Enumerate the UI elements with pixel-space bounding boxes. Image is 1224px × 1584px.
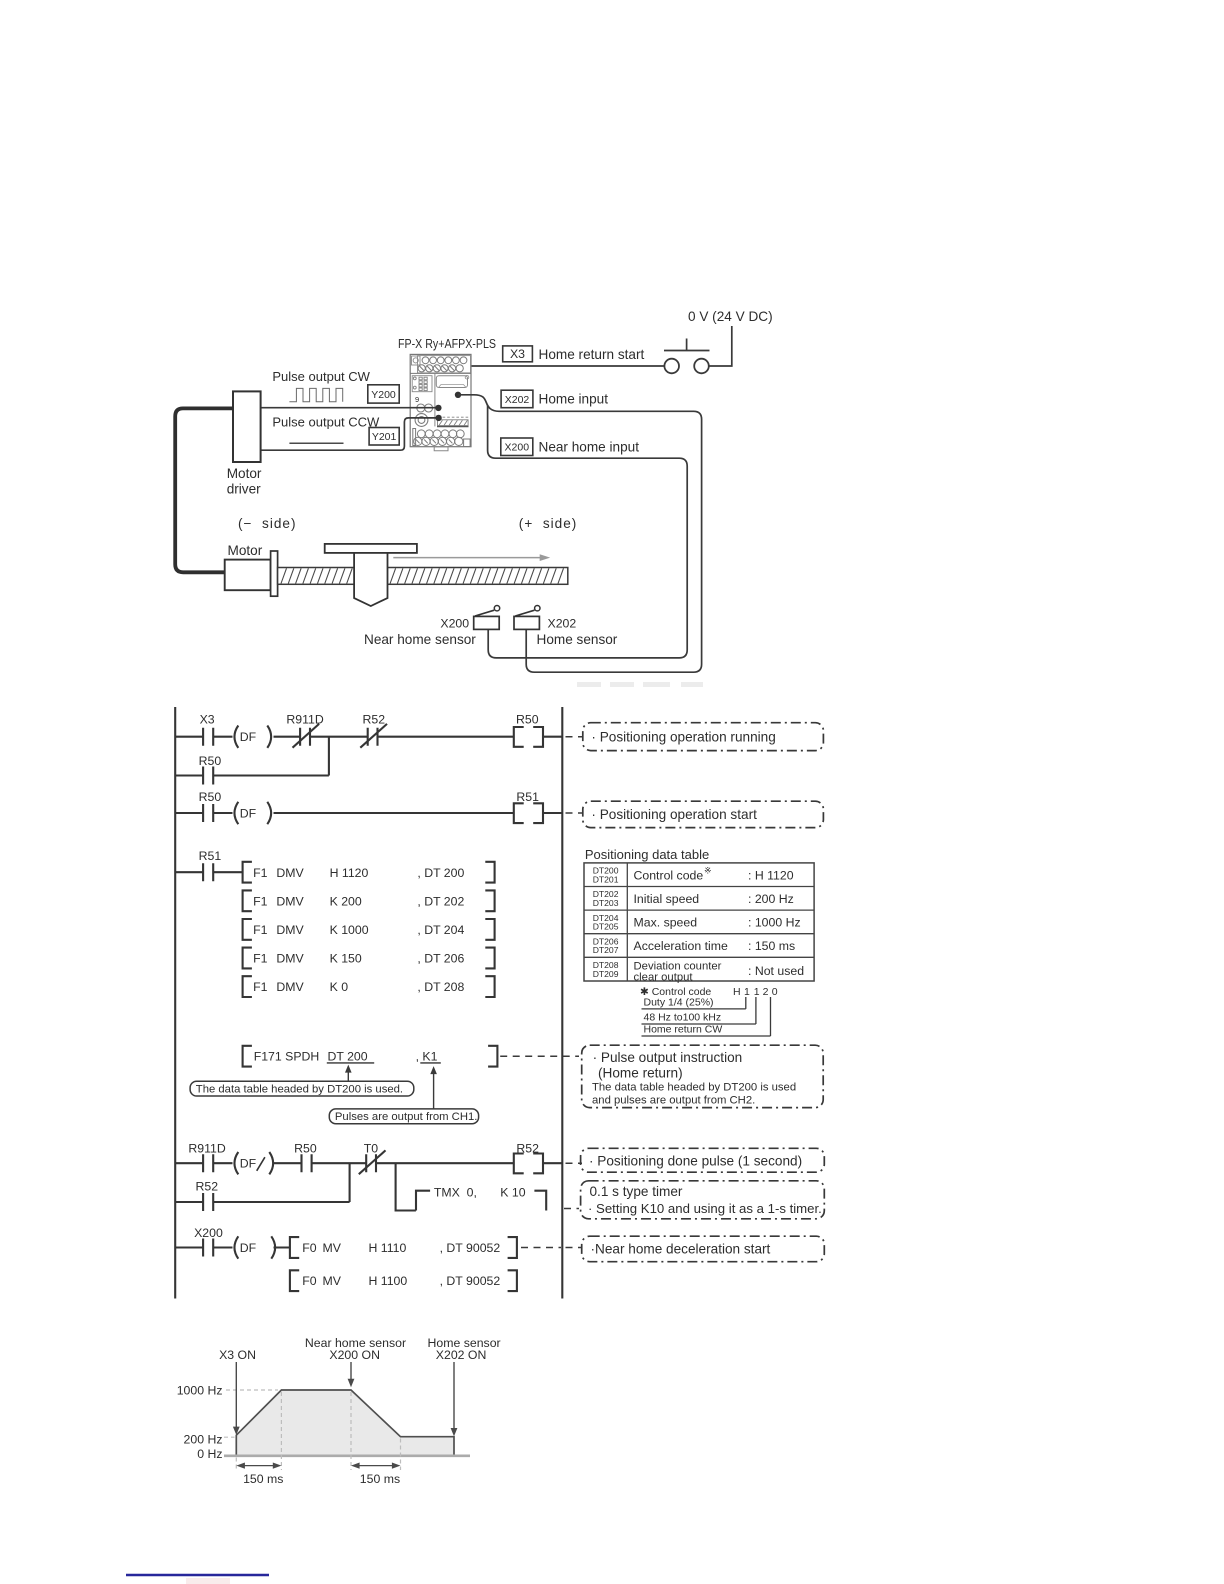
svg-text:X202 ON: X202 ON	[436, 1348, 487, 1362]
svg-text:DT201: DT201	[593, 874, 619, 884]
svg-text:DF: DF	[240, 730, 257, 744]
instruction F1 DMV H1120 DT200	[243, 862, 495, 883]
faint page number artifact	[186, 1578, 230, 1584]
instruction F1 DMV K1000 DT204	[243, 919, 495, 940]
svg-text:, DT 90052: , DT 90052	[440, 1274, 501, 1288]
svg-text:X200: X200	[440, 617, 469, 631]
wire Y200 to PLC	[261, 407, 436, 409]
wire rung4	[175, 1162, 562, 1164]
svg-text:The data table headed by DT200: The data table headed by DT200 is used.	[196, 1083, 403, 1095]
svg-text:H 1120: H 1120	[330, 866, 369, 880]
wire dashed rung5 to note	[566, 1247, 583, 1249]
instruction F1 DMV K200 DT202	[243, 890, 495, 911]
svg-text:0: 0	[772, 986, 778, 998]
svg-text:Home sensor: Home sensor	[537, 632, 618, 647]
left power rail	[174, 707, 176, 1299]
signal pulse output CCW	[272, 415, 380, 444]
node home input terminal	[455, 392, 461, 398]
svg-text:K 200: K 200	[330, 894, 362, 908]
label box Y200	[368, 385, 399, 403]
svg-text:0.1 s type timer: 0.1 s type timer	[590, 1184, 683, 1199]
svg-text:H: H	[733, 986, 741, 998]
wire home input X202 loop	[458, 395, 702, 672]
marker arrow X202 ON	[451, 1362, 458, 1436]
wire dashed timer to note	[564, 1208, 579, 1210]
wire 0V supply to pushbutton	[709, 326, 732, 366]
svg-text:F1: F1	[253, 894, 268, 908]
svg-text:DT205: DT205	[593, 922, 619, 932]
svg-text:F1: F1	[253, 980, 268, 994]
axis labels	[177, 1383, 223, 1460]
dimension arrow 150ms accel	[236, 1463, 283, 1487]
node Y200 terminal	[435, 405, 441, 411]
svg-text:X3: X3	[510, 347, 525, 361]
svg-text:Initial speed: Initial speed	[634, 892, 700, 906]
svg-text:(+ side): (+ side)	[519, 516, 577, 531]
contact R50 rung2	[199, 790, 222, 822]
marker arrow X3 ON	[233, 1362, 240, 1435]
svg-text:, DT 204: , DT 204	[417, 923, 464, 937]
coil R50	[514, 713, 543, 747]
svg-text:Y200: Y200	[371, 389, 396, 401]
svg-text:The data table headed by DT200: The data table headed by DT200 is used	[592, 1082, 796, 1094]
pushbutton switch X3 (home return start)	[664, 339, 710, 374]
wire rung1	[175, 736, 562, 738]
svg-text:, DT 202: , DT 202	[417, 894, 464, 908]
DF pulse block rung5	[234, 1236, 275, 1258]
motor	[225, 543, 278, 596]
wire near home input X200 loop	[488, 405, 688, 658]
svg-text:F1: F1	[253, 923, 268, 937]
svg-text:X3 ON: X3 ON	[219, 1348, 256, 1362]
label box X200	[501, 438, 639, 456]
node X3 terminal	[461, 363, 467, 369]
wire Y201 to PLC	[261, 418, 436, 450]
speed profile outline	[236, 1390, 454, 1455]
svg-text:· Positioning operation runnin: · Positioning operation running	[591, 729, 775, 744]
wire rung2	[175, 812, 562, 814]
motor driver	[227, 391, 262, 496]
svg-text:X202: X202	[548, 617, 577, 631]
control code legend	[640, 986, 778, 1036]
contact R52 branch	[196, 1180, 219, 1212]
svg-text:48 Hz to100 kHz: 48 Hz to100 kHz	[644, 1011, 722, 1023]
dimension arrow 150ms decel	[351, 1463, 401, 1487]
contact T0 (NC)	[359, 1141, 386, 1174]
svg-text:DMV: DMV	[276, 894, 304, 908]
svg-text:R50: R50	[294, 1141, 317, 1155]
svg-text:MV: MV	[323, 1274, 342, 1288]
svg-text:DMV: DMV	[276, 980, 304, 994]
contact X3	[200, 713, 215, 746]
svg-text:9: 9	[415, 395, 419, 404]
svg-text:X3: X3	[200, 713, 215, 727]
svg-text:R52: R52	[516, 1141, 539, 1155]
label (- side)	[238, 516, 296, 531]
svg-text:FP-X Ry+AFPX-PLS: FP-X Ry+AFPX-PLS	[398, 336, 496, 351]
node junction rung1/branch	[328, 737, 330, 776]
note positioning operation start	[583, 801, 824, 827]
PLC unit FP-X Ry+AFPX-PLS	[398, 336, 496, 451]
svg-text:1: 1	[744, 986, 750, 998]
note positioning operation running	[583, 723, 824, 751]
svg-text:, DT 208: , DT 208	[417, 980, 464, 994]
svg-text:Pulses are output from CH1.: Pulses are output from CH1.	[335, 1111, 478, 1123]
svg-text:150 ms: 150 ms	[243, 1472, 283, 1486]
svg-text:DF: DF	[240, 1241, 257, 1255]
svg-text:H 1100: H 1100	[369, 1274, 408, 1288]
contact R50 rung4	[294, 1141, 317, 1172]
svg-text:: H 1120: : H 1120	[748, 868, 794, 882]
svg-text:X200: X200	[505, 442, 530, 454]
svg-text:R50: R50	[516, 713, 539, 727]
wire dashed rung2 to note	[566, 812, 583, 814]
svg-text:X200: X200	[194, 1226, 223, 1240]
svg-text:: 1000 Hz: : 1000 Hz	[748, 916, 801, 930]
svg-text:150 ms: 150 ms	[360, 1472, 400, 1486]
svg-text:Acceleration time: Acceleration time	[634, 939, 728, 953]
contact R911D rung4	[188, 1141, 225, 1172]
wire dashed rung4 to note	[566, 1162, 583, 1164]
svg-text:F0: F0	[302, 1274, 317, 1288]
svg-text:Positioning data table: Positioning data table	[585, 847, 709, 862]
svg-text:X200 ON: X200 ON	[329, 1348, 380, 1362]
svg-text:(Home return): (Home return)	[598, 1065, 683, 1080]
svg-text:0 V (24 V DC): 0 V (24 V DC)	[688, 309, 773, 324]
callout pulses output note	[329, 1066, 478, 1124]
note 0.1 s type timer	[581, 1181, 825, 1219]
contact R911D (NC)	[286, 713, 323, 748]
label box Y201	[369, 428, 399, 446]
carriage nut	[354, 552, 387, 607]
svg-text:driver: driver	[227, 482, 261, 497]
instruction F1 DMV K0 DT208	[243, 976, 495, 997]
svg-text:DMV: DMV	[276, 923, 304, 937]
svg-text:F1: F1	[253, 952, 268, 966]
svg-text:Near home sensor: Near home sensor	[364, 632, 476, 647]
svg-text:· Pulse output instruction: · Pulse output instruction	[593, 1050, 743, 1065]
timer instruction TMX0 K10	[416, 1185, 546, 1210]
instruction F0 MV H1100 DT90052	[290, 1270, 517, 1291]
signal pulse output CW	[272, 369, 370, 402]
svg-text:R50: R50	[199, 790, 222, 804]
note pulse output instruction	[582, 1045, 824, 1107]
svg-text:Max. speed: Max. speed	[634, 916, 698, 930]
svg-text:Y201: Y201	[372, 431, 397, 443]
positioning data table	[584, 847, 814, 984]
svg-text:K 1000: K 1000	[330, 923, 369, 937]
svg-text:Duty 1/4 (25%): Duty 1/4 (25%)	[644, 997, 714, 1009]
svg-text:Home input: Home input	[539, 392, 609, 407]
svg-text:· Setting K10 and using it as: · Setting K10 and using it as a 1-s time…	[588, 1201, 822, 1216]
contact R50 branch	[199, 754, 222, 785]
instruction F171 SPDH DT200 K1	[243, 1046, 498, 1067]
svg-text:R911D: R911D	[188, 1141, 225, 1155]
svg-text:R50: R50	[199, 754, 222, 768]
wire dashed F171 to annotation	[500, 1055, 579, 1057]
speed profile fill	[236, 1390, 454, 1455]
wire branch R50	[175, 774, 329, 776]
svg-text:F1: F1	[253, 866, 268, 880]
svg-text:· Positioning done pulse (1 se: · Positioning done pulse (1 second)	[589, 1153, 802, 1168]
svg-text:clear output: clear output	[634, 971, 694, 983]
contact X200	[194, 1226, 223, 1257]
svg-text:0 Hz: 0 Hz	[197, 1447, 222, 1461]
work table	[325, 544, 417, 553]
svg-text:F171 SPDH: F171 SPDH	[254, 1050, 320, 1064]
wire dashed rung1 to note	[566, 736, 583, 738]
motion arrow	[393, 554, 550, 561]
dashed guides	[224, 1390, 401, 1470]
home sensor X202	[514, 606, 618, 648]
svg-text:DF: DF	[240, 1157, 257, 1171]
wire rung3	[175, 871, 243, 873]
callout data table note	[190, 1065, 414, 1096]
svg-text:K 0: K 0	[330, 980, 349, 994]
svg-text:Home return CW: Home return CW	[644, 1023, 723, 1035]
svg-text:: 200 Hz: : 200 Hz	[748, 892, 794, 906]
svg-text:DF: DF	[240, 807, 257, 821]
svg-text:: Not used: : Not used	[748, 964, 804, 978]
svg-text:(− side): (− side)	[238, 516, 296, 531]
svg-text:Pulse output CCW: Pulse output CCW	[272, 415, 380, 430]
svg-text:DT207: DT207	[593, 945, 619, 955]
marker arrow X200 ON	[348, 1362, 355, 1387]
svg-text:TMX 0,: TMX 0,	[434, 1185, 477, 1199]
faint scan artifact dashes	[577, 682, 703, 687]
DF pulse block rung1	[234, 726, 271, 748]
svg-text:※: ※	[704, 866, 712, 876]
footer rule	[126, 1574, 269, 1576]
svg-text:DMV: DMV	[276, 866, 304, 880]
svg-text:R52: R52	[363, 713, 386, 727]
label (+ side)	[519, 516, 577, 531]
label box X3	[503, 346, 645, 362]
svg-text:: 150 ms: : 150 ms	[748, 939, 795, 953]
coil R51	[514, 790, 543, 823]
right power rail	[561, 707, 563, 1299]
contact R52 (NC)	[360, 713, 387, 748]
note positioning done pulse	[581, 1148, 825, 1172]
note near home deceleration start	[582, 1236, 825, 1262]
svg-text:DT203: DT203	[593, 898, 619, 908]
svg-text:Control code: Control code	[634, 868, 704, 882]
svg-text:K 150: K 150	[330, 952, 362, 966]
instruction F1 DMV K150 DT206	[243, 948, 495, 969]
svg-text:Pulse output CW: Pulse output CW	[272, 369, 370, 384]
svg-text:· Positioning operation start: · Positioning operation start	[591, 807, 757, 822]
svg-text:, DT 206: , DT 206	[417, 952, 464, 966]
svg-text:Home return start: Home return start	[539, 347, 645, 362]
instruction F0 MV H1110 DT90052	[290, 1237, 517, 1258]
svg-text:Motor: Motor	[227, 466, 262, 481]
svg-text:X202: X202	[505, 394, 530, 406]
wire branch R52	[175, 1201, 350, 1203]
near home sensor X200	[364, 606, 500, 648]
svg-text:R52: R52	[196, 1180, 219, 1194]
svg-text:200 Hz: 200 Hz	[184, 1432, 223, 1446]
wire dashed rung5 to annotation	[521, 1247, 561, 1249]
net 0V label	[688, 309, 773, 324]
coil R52	[514, 1141, 543, 1173]
svg-text:T0: T0	[364, 1141, 379, 1155]
ball screw shaft	[278, 568, 568, 585]
svg-text:DMV: DMV	[276, 952, 304, 966]
svg-text:R51: R51	[516, 790, 539, 804]
wire X3 input to pushbutton	[465, 365, 665, 367]
svg-text:H 1110: H 1110	[369, 1241, 407, 1255]
wire rung5	[175, 1246, 290, 1248]
axis baseline	[224, 1455, 470, 1458]
svg-text:and pulses are output from CH2: and pulses are output from CH2.	[592, 1094, 755, 1106]
svg-text:Motor: Motor	[228, 543, 263, 558]
svg-text:K 10: K 10	[500, 1185, 525, 1199]
DF falling edge block rung4	[234, 1152, 273, 1174]
svg-text:DT209: DT209	[593, 969, 619, 979]
svg-text:R911D: R911D	[286, 713, 323, 727]
contact R51	[199, 849, 222, 881]
svg-text:MV: MV	[323, 1241, 342, 1255]
svg-text:Near home input: Near home input	[539, 439, 640, 454]
svg-text:F0: F0	[302, 1241, 317, 1255]
svg-text:DT 200: DT 200	[328, 1050, 368, 1064]
node Y201 terminal	[435, 415, 441, 421]
label box X202	[501, 390, 608, 408]
svg-text:2: 2	[763, 986, 769, 998]
DF pulse block rung2	[234, 802, 271, 824]
svg-text:, DT 90052: , DT 90052	[440, 1241, 501, 1255]
svg-text:, K1: , K1	[416, 1050, 438, 1064]
svg-text:1: 1	[754, 986, 760, 998]
svg-text:R51: R51	[199, 849, 222, 863]
chart labels	[219, 1336, 501, 1362]
svg-text:·Near home deceleration start: ·Near home deceleration start	[591, 1242, 771, 1257]
wire motor driver to motor (power)	[175, 408, 233, 572]
svg-text:1000 Hz: 1000 Hz	[177, 1383, 223, 1397]
node junction rung4/TMX	[396, 1163, 416, 1210]
node junction rung4/R52 branch	[349, 1163, 351, 1202]
svg-text:, DT 200: , DT 200	[417, 866, 464, 880]
